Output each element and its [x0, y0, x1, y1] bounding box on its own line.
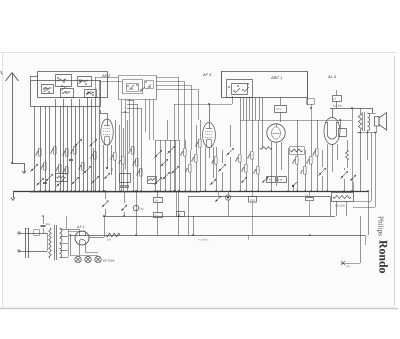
- svg-text:0,1V: 0,1V: [276, 108, 282, 111]
- svg-text:100: 100: [107, 239, 112, 242]
- svg-text:50μ: 50μ: [46, 223, 51, 226]
- svg-text:Philips: Philips: [377, 216, 385, 236]
- svg-text:50μ: 50μ: [139, 208, 144, 211]
- svg-text:ABC 1: ABC 1: [270, 75, 282, 80]
- svg-text:AL 4: AL 4: [327, 74, 337, 79]
- svg-text:6V 0,5A: 6V 0,5A: [103, 259, 115, 263]
- svg-text:AZ 1: AZ 1: [76, 225, 84, 229]
- svg-text:AF 3: AF 3: [202, 72, 212, 77]
- svg-text:4μ5 Klim: 4μ5 Klim: [333, 105, 342, 108]
- svg-text:(24v): (24v): [250, 199, 255, 202]
- svg-text:Rondo: Rondo: [377, 240, 391, 274]
- svg-text:f+1 08/alu: f+1 08/alu: [198, 239, 209, 242]
